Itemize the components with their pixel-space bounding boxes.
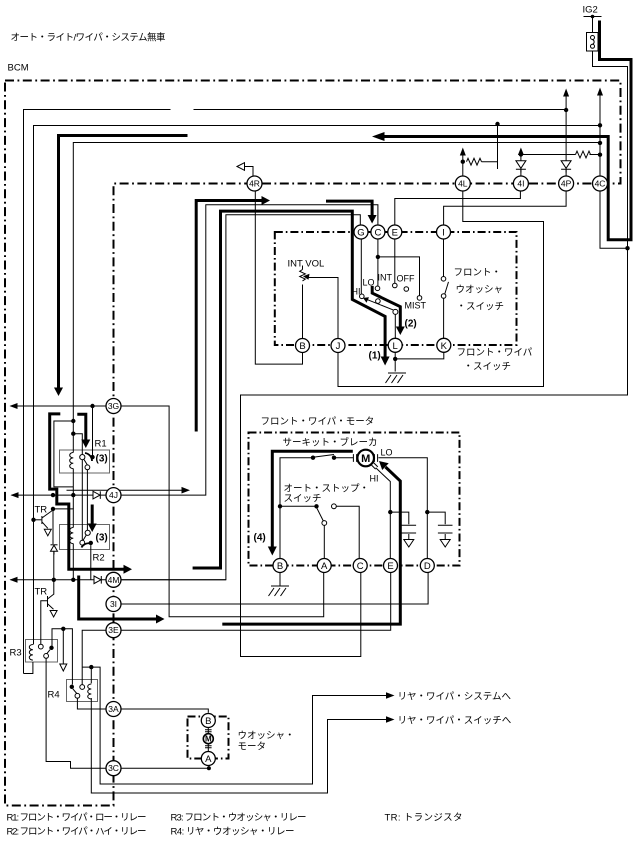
- cap E ground arrow: [404, 540, 414, 548]
- svg-text:TR: TR: [35, 587, 48, 598]
- wire B to INT VOL pot: [302, 266, 304, 339]
- svg-text:ウオッシャ: ウオッシャ: [456, 285, 504, 296]
- arrowhead 4J east: [182, 487, 191, 494]
- R2 blade: [83, 535, 86, 540]
- svg-text:R1: R1: [95, 439, 107, 450]
- wire autostop B branch: [280, 505, 315, 507]
- bold arrowhead R2 east: [156, 615, 165, 624]
- connector 4L: [455, 176, 470, 191]
- autostop blade: [317, 508, 324, 521]
- junction dots: [591, 15, 595, 19]
- bold into C: [326, 201, 372, 216]
- wire 3C row east to washer A: [121, 765, 209, 768]
- wire L1 top nest outer: [24, 110, 567, 674]
- wire 4C down to IG2 feed column: [600, 191, 628, 248]
- svg-text:4C: 4C: [595, 179, 606, 189]
- R4 relay box: [67, 680, 98, 702]
- terminal G: [354, 225, 368, 239]
- bold arrowhead east above 4M: [124, 565, 133, 574]
- blade arrowhead at HI: [363, 297, 369, 303]
- svg-text:(1): (1): [369, 351, 381, 362]
- wire R1 feed bypass loop: [54, 421, 73, 487]
- bold HI return to M: [222, 467, 400, 624]
- bold arrowhead east at y200: [262, 196, 271, 205]
- resistor above 4L: [467, 158, 482, 165]
- svg-text:R3: フロント・ウオッシャ・リレー: R3: フロント・ウオッシャ・リレー: [171, 813, 307, 824]
- svg-text:TR: トランジスタ: TR: トランジスタ: [385, 813, 463, 824]
- bold LO feed with arrow: [196, 201, 262, 432]
- diode above 4I: [516, 161, 526, 169]
- wire I up to 4P: [444, 191, 566, 225]
- svg-text:R4: リヤ・ウオッシャ・リレー: R4: リヤ・ウオッシャ・リレー: [171, 827, 295, 838]
- wire TR2 collector to 4M row: [53, 580, 55, 595]
- svg-text:ウオッシャ・: ウオッシャ・: [238, 731, 295, 742]
- bold blade path (2): [372, 286, 400, 327]
- wire 4J row west with arrow: [12, 494, 107, 496]
- R3 blade contact: [44, 654, 49, 659]
- terminal J: [331, 339, 345, 353]
- switch HI contact: [360, 294, 365, 299]
- R2 pivot contact: [85, 530, 90, 535]
- pot wiper arrow: [303, 274, 310, 280]
- wire E cap branch: [390, 512, 409, 524]
- wire E to INT contact: [394, 239, 396, 283]
- wire C-feed from 4J column: [121, 205, 378, 495]
- wire 4I resistor row to 4C column: [521, 154, 600, 156]
- wire 4R to B: [255, 191, 302, 364]
- R4 blade contact: [75, 693, 80, 698]
- svg-text:B: B: [299, 341, 305, 352]
- svg-text:A: A: [205, 754, 212, 765]
- bold IG2 feed down right edge: [384, 21, 632, 240]
- wire R4 coil top feed: [90, 667, 92, 683]
- capacitor D: [438, 525, 453, 533]
- wire 4C up tall: [599, 95, 601, 177]
- wire 4M row west with arrow: [11, 579, 107, 581]
- svg-text:IG2: IG2: [583, 5, 598, 16]
- svg-text:M: M: [205, 735, 212, 744]
- R2 fixed contact dot: [89, 541, 93, 545]
- terminal A motor: [317, 559, 331, 573]
- motor M symbol: [357, 450, 374, 467]
- connector 4M: [106, 572, 121, 587]
- autostop blade contact: [322, 521, 327, 526]
- svg-text:(4): (4): [254, 533, 266, 544]
- svg-text:・スイッチ: ・スイッチ: [464, 362, 512, 373]
- autostop open contact: [332, 504, 337, 509]
- wire TR2 base from R3 contact: [41, 601, 48, 645]
- fuse IG2: [587, 33, 599, 52]
- connector 4P: [559, 176, 574, 191]
- connector 4J: [106, 488, 121, 503]
- terminal I: [437, 225, 451, 239]
- svg-text:3G: 3G: [108, 401, 119, 411]
- R4 fixed dot: [70, 685, 74, 689]
- wire M right to D: [378, 458, 427, 559]
- TR2 transistor: [48, 594, 54, 609]
- svg-text:MIST: MIST: [405, 301, 427, 311]
- svg-text:BCM: BCM: [8, 63, 29, 74]
- R4 blade: [73, 689, 77, 694]
- svg-text:4R: 4R: [249, 179, 260, 189]
- svg-text:スイッチ: スイッチ: [284, 494, 322, 505]
- wire washer contact to K: [443, 298, 445, 338]
- svg-text:B: B: [277, 561, 283, 572]
- wire IG2 feed column: [241, 51, 628, 657]
- svg-text:3A: 3A: [108, 704, 119, 714]
- washer terminal A: [201, 752, 215, 766]
- wire L2 nest second: [34, 126, 601, 645]
- front wiper switch box dash-dot: [275, 232, 517, 345]
- ground under L: [386, 373, 407, 383]
- wire 4L up arrow: [462, 155, 464, 177]
- diode on 4J row: [93, 491, 100, 499]
- svg-text:INT: INT: [378, 273, 393, 283]
- autostop pivot dot: [314, 504, 318, 508]
- bold arrowhead into R2: [88, 524, 97, 533]
- terminal C: [371, 225, 385, 239]
- bold motor (4) path: [272, 451, 353, 547]
- svg-text:3I: 3I: [110, 599, 117, 609]
- wire washer B-M: [207, 727, 209, 733]
- connector 4C: [593, 176, 608, 191]
- wire R1 blade out to R2 pivot: [86, 470, 88, 531]
- switch blade mid contact: [376, 299, 381, 304]
- R3 blade: [47, 650, 50, 654]
- wire R2 coil bottom to 4M row: [72, 544, 74, 580]
- wire 3E west branch R3-R4: [52, 629, 72, 685]
- svg-text:オート・ライト/ワイパ・システム無車: オート・ライト/ワイパ・システム無車: [11, 32, 166, 44]
- R1 blade contact: [85, 465, 90, 470]
- wire 4L resistor branch: [482, 124, 498, 169]
- wire R2 coil top feed: [53, 509, 73, 528]
- R1 fixed contact dot: [90, 455, 94, 459]
- diode on 4M row: [94, 576, 101, 584]
- wire R1 pivot feed: [73, 434, 82, 455]
- svg-text:R2: フロント・ワイパ・ハイ・リレー: R2: フロント・ワイパ・ハイ・リレー: [7, 827, 147, 838]
- arrowhead 4L up: [460, 148, 466, 156]
- svg-text:フロント・ワイパ・モータ: フロント・ワイパ・モータ: [261, 417, 375, 428]
- svg-text:R4: R4: [48, 690, 60, 701]
- svg-text:G: G: [357, 228, 364, 239]
- wire washer M-A: [207, 744, 209, 752]
- open arrow at 4R stub: [237, 163, 245, 171]
- wire M HI to E: [376, 468, 391, 559]
- svg-text:・スイッチ: ・スイッチ: [457, 302, 505, 313]
- svg-text:フロント・ワイパ: フロント・ワイパ: [457, 348, 533, 359]
- bold top bus left segment: [59, 136, 188, 389]
- svg-text:B: B: [205, 716, 211, 727]
- R1 blade: [84, 459, 88, 465]
- svg-text:3E: 3E: [108, 625, 119, 635]
- switch LO contact: [375, 286, 380, 291]
- svg-text:OFF: OFF: [397, 274, 415, 284]
- floating arrow 4J east: [67, 489, 183, 491]
- svg-text:4P: 4P: [561, 179, 572, 189]
- wire 3A row east to washer B: [121, 709, 208, 713]
- bold arrowhead down above 3G row: [54, 388, 63, 397]
- R2 arc arrow: [82, 543, 91, 547]
- svg-text:サーキット・ブレーカ: サーキット・ブレーカ: [283, 437, 378, 449]
- wire autostop contact to C: [336, 506, 359, 558]
- R2 coil: [70, 528, 74, 544]
- wire J to 4L via right loop: [338, 191, 544, 387]
- wire 3I row east to motor D: [121, 573, 428, 605]
- R3 fixed dot: [49, 646, 53, 650]
- arrowhead 3G west: [10, 403, 18, 409]
- R1 arc arrow: [85, 453, 92, 461]
- svg-text:INT VOL: INT VOL: [288, 259, 325, 270]
- bold HI path riser: [193, 211, 386, 568]
- arrowhead 4P up: [563, 89, 569, 97]
- wire IG2 top: [584, 17, 602, 33]
- arrowhead rear line1: [386, 692, 395, 698]
- R3 relay box: [26, 640, 58, 663]
- wire R1 pivot to R2 blade: [81, 460, 83, 540]
- wire E up to 4I: [395, 191, 521, 225]
- svg-text:リヤ・ワイパ・スイッチへ: リヤ・ワイパ・スイッチへ: [398, 716, 512, 727]
- wire G-feed from 4M row column: [121, 215, 360, 580]
- svg-text:HI: HI: [370, 474, 379, 484]
- connector 4R: [247, 176, 262, 191]
- terminal K: [437, 338, 451, 352]
- wire L to ground: [394, 352, 396, 371]
- wire 3E west to R4 coil and rear line1: [82, 630, 387, 784]
- arrowhead 4I up: [518, 148, 524, 156]
- svg-text:C: C: [374, 228, 381, 239]
- svg-text:4I: 4I: [517, 179, 524, 189]
- svg-text:リヤ・ワイパ・システムへ: リヤ・ワイパ・システムへ: [398, 692, 512, 703]
- wire E cap ground stub: [408, 534, 410, 539]
- wire breaker to motor B column: [280, 458, 311, 559]
- wire 3G row west with arrow: [11, 405, 107, 407]
- wire pot wiper to J: [308, 278, 339, 339]
- bold arrowhead into R1: [81, 440, 90, 449]
- TR1 diode: [51, 544, 58, 546]
- wire 4P up tall: [565, 96, 567, 177]
- svg-text:4M: 4M: [108, 575, 120, 585]
- terminal D motor: [420, 559, 434, 573]
- washer switch blade: [445, 282, 449, 294]
- cap D ground arrow: [440, 540, 450, 548]
- R1 pivot contact: [80, 455, 85, 460]
- svg-text:I: I: [442, 228, 445, 239]
- wire D cap branch: [427, 512, 445, 524]
- connector 3A: [106, 702, 121, 717]
- svg-text:(2): (2): [405, 319, 417, 330]
- bold arrowhead into M: [379, 461, 389, 470]
- wire 4M row east: [121, 579, 226, 581]
- ground under motor B: [269, 573, 290, 597]
- arrowhead 4J west: [11, 492, 19, 498]
- switch blade line: [365, 299, 394, 311]
- svg-text:D: D: [424, 561, 431, 572]
- wire ground arrow branch: [62, 629, 64, 664]
- ground arrow left of R4: [60, 664, 67, 671]
- wire C branch to MIST contact: [378, 257, 420, 296]
- wire 3E row east to motor E: [121, 573, 391, 631]
- svg-text:フロント・: フロント・: [454, 268, 502, 279]
- svg-text:E: E: [387, 561, 393, 572]
- svg-text:3C: 3C: [108, 763, 119, 773]
- circuit breaker contacts: [311, 456, 315, 460]
- svg-text:L: L: [393, 341, 398, 352]
- terminal B switch: [296, 339, 310, 353]
- wire 4R arrow stub: [245, 167, 254, 177]
- wire 3G east to motor A: [121, 406, 324, 617]
- arrowhead 4C up: [597, 88, 603, 96]
- wire blade to L: [394, 314, 396, 338]
- front wiper motor box dash-dot: [249, 433, 460, 566]
- connector 3E: [106, 623, 121, 638]
- bold arrowhead (1) down: [381, 357, 390, 366]
- svg-text:J: J: [336, 341, 341, 352]
- wire C to LO contact: [377, 239, 379, 286]
- diode above 4P: [561, 161, 571, 169]
- TR1 emitter arrow: [44, 529, 51, 536]
- terminal L: [388, 338, 402, 352]
- circuit breaker blade: [313, 455, 334, 458]
- bold arrow into R2: [91, 505, 94, 526]
- svg-text:R2: R2: [93, 553, 105, 564]
- svg-text:R1: フロント・ワイパ・ロー・リレー: R1: フロント・ワイパ・ロー・リレー: [7, 813, 147, 824]
- bold arrowhead (2) down: [396, 327, 405, 336]
- terminal E motor: [384, 559, 398, 573]
- R1 coil: [70, 453, 74, 469]
- svg-text:4J: 4J: [109, 490, 118, 500]
- capacitor E: [402, 525, 417, 533]
- bold arrow into R1: [77, 414, 86, 441]
- terminal C motor: [353, 559, 367, 573]
- svg-text:C: C: [357, 561, 364, 572]
- svg-text:4L: 4L: [458, 179, 468, 189]
- R3 coil: [29, 645, 33, 661]
- wire G to HI contact: [360, 239, 362, 294]
- bold R2 output to east arrow: [79, 576, 157, 620]
- wire autostop blade to A: [323, 525, 325, 559]
- terminal E: [388, 225, 402, 239]
- wire L3 nest fourth: [73, 143, 600, 453]
- TR2 emitter arrow: [50, 611, 57, 618]
- bold arrowhead into C: [368, 215, 377, 224]
- terminal B motor: [273, 559, 287, 573]
- bold staircase R1-R2: [50, 414, 126, 569]
- bold arrowhead west at top bus: [372, 132, 385, 141]
- washer motor box dash-dot: [188, 717, 229, 759]
- wire R4 output to 3A: [77, 698, 106, 709]
- switch blade pivot: [393, 309, 398, 314]
- connector 3C: [106, 761, 121, 776]
- washer terminal B: [201, 714, 215, 728]
- svg-text:モータ: モータ: [238, 742, 267, 753]
- wire R2 output to 4M row: [90, 545, 92, 580]
- svg-text:E: E: [392, 228, 398, 239]
- washer motor M: [205, 730, 212, 732]
- wire R4 coil bottom rear line2: [91, 698, 387, 793]
- svg-text:LO: LO: [381, 448, 393, 458]
- motor M terminals: [353, 454, 377, 462]
- wire D cap ground stub: [444, 534, 446, 539]
- R1 relay box: [60, 450, 110, 473]
- INT VOL potentiometer: [300, 270, 306, 281]
- svg-text:R3: R3: [10, 648, 22, 659]
- R3 open contact: [38, 644, 43, 649]
- R2 blade contact: [80, 540, 85, 545]
- svg-text:A: A: [321, 561, 328, 572]
- arrowhead 4M west: [10, 577, 18, 583]
- wire I to washer contact: [443, 239, 445, 277]
- switch OFF contact: [404, 287, 409, 292]
- wire K to ground link: [395, 353, 444, 359]
- wire breaker to M: [336, 457, 354, 459]
- connector 3I: [106, 597, 121, 612]
- R2 relay box: [60, 525, 110, 550]
- switch MIST contact: [417, 296, 422, 301]
- washer switch contact upper: [441, 277, 446, 282]
- svg-text:TR: TR: [35, 505, 48, 516]
- R4 open contact: [80, 685, 85, 690]
- connector 4I: [513, 176, 528, 191]
- bold arrowhead (4) down: [268, 547, 277, 556]
- TR1 transistor: [42, 510, 53, 528]
- wire 3C row west to R3 output: [46, 659, 106, 769]
- wire L1 to R3 coil bottom: [24, 662, 33, 674]
- washer switch contact lower: [441, 294, 446, 299]
- svg-text:K: K: [441, 341, 448, 352]
- resistor near 4C: [576, 151, 591, 158]
- svg-text:M: M: [361, 453, 370, 465]
- wire TR1 base: [34, 519, 42, 521]
- wire 3G contact feed to R1: [92, 406, 94, 457]
- connector 3G: [106, 399, 121, 414]
- arrowhead rear line2: [386, 716, 395, 722]
- svg-text:(3): (3): [96, 454, 108, 465]
- wire 4I up arrow: [520, 153, 522, 176]
- wire TR1 diode column: [52, 509, 55, 580]
- wire R1 coil bottom to 4J row: [72, 469, 74, 509]
- svg-text:(3): (3): [96, 533, 108, 544]
- switch INT contact: [393, 283, 398, 288]
- R4 coil: [88, 684, 92, 699]
